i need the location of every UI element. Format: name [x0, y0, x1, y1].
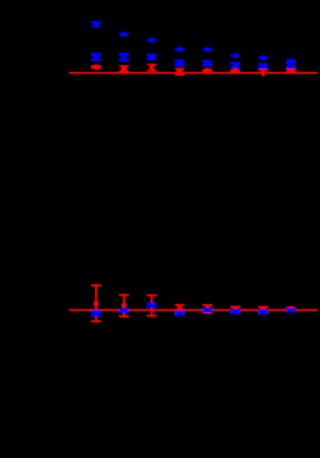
bottom blue x-point 1: [91, 310, 101, 317]
bottom panel: red reference line: [69, 309, 318, 311]
bottom red point 2: [119, 294, 129, 317]
bottom red point 7: [258, 306, 268, 313]
bottom red point 4: [175, 304, 184, 315]
top red point 3: [147, 64, 157, 72]
bottom blue x-point 5: [203, 308, 213, 313]
top blue dot 2: [119, 32, 129, 37]
top red point 7: [258, 69, 268, 77]
bottom blue x-point 7: [258, 309, 268, 314]
bottom red point 1: [91, 284, 101, 322]
top blue dot 3: [147, 38, 157, 43]
top blue x-point 5: [202, 60, 212, 67]
top red point 1: [91, 64, 101, 70]
top blue x-point 2: [119, 53, 129, 62]
top blue x-point 4: [175, 60, 185, 67]
top blue dot 5: [202, 47, 212, 52]
bottom red point 5: [202, 304, 212, 314]
top blue dot 7: [258, 55, 268, 60]
bottom red point 6: [230, 306, 240, 314]
top blue x-point 6: [230, 62, 240, 68]
top panel: red reference line: [69, 72, 318, 74]
top blue x-point 7: [258, 63, 268, 69]
top blue dot 1: [91, 21, 101, 28]
top blue dot 6: [230, 53, 240, 58]
top red point 2: [119, 65, 128, 72]
top blue x-point 3: [147, 54, 157, 61]
top blue x-point 1: [91, 53, 101, 62]
bottom blue x-point 8: [286, 308, 296, 312]
top red point 4: [175, 68, 184, 76]
top blue dot 8: [286, 58, 296, 63]
bottom blue x-point 2: [119, 308, 129, 313]
top blue dot 4: [175, 47, 185, 52]
bottom blue x-point 6: [230, 309, 240, 314]
top red point 8: [286, 67, 295, 73]
bottom blue x-point 3: [147, 302, 157, 308]
bottom red point 8: [286, 306, 295, 312]
top red point 6: [230, 68, 240, 73]
top blue x-point 8: [286, 61, 296, 68]
bottom blue x-point 4: [175, 311, 185, 316]
bottom red point 3: [147, 294, 157, 317]
top red point 5: [203, 68, 213, 73]
